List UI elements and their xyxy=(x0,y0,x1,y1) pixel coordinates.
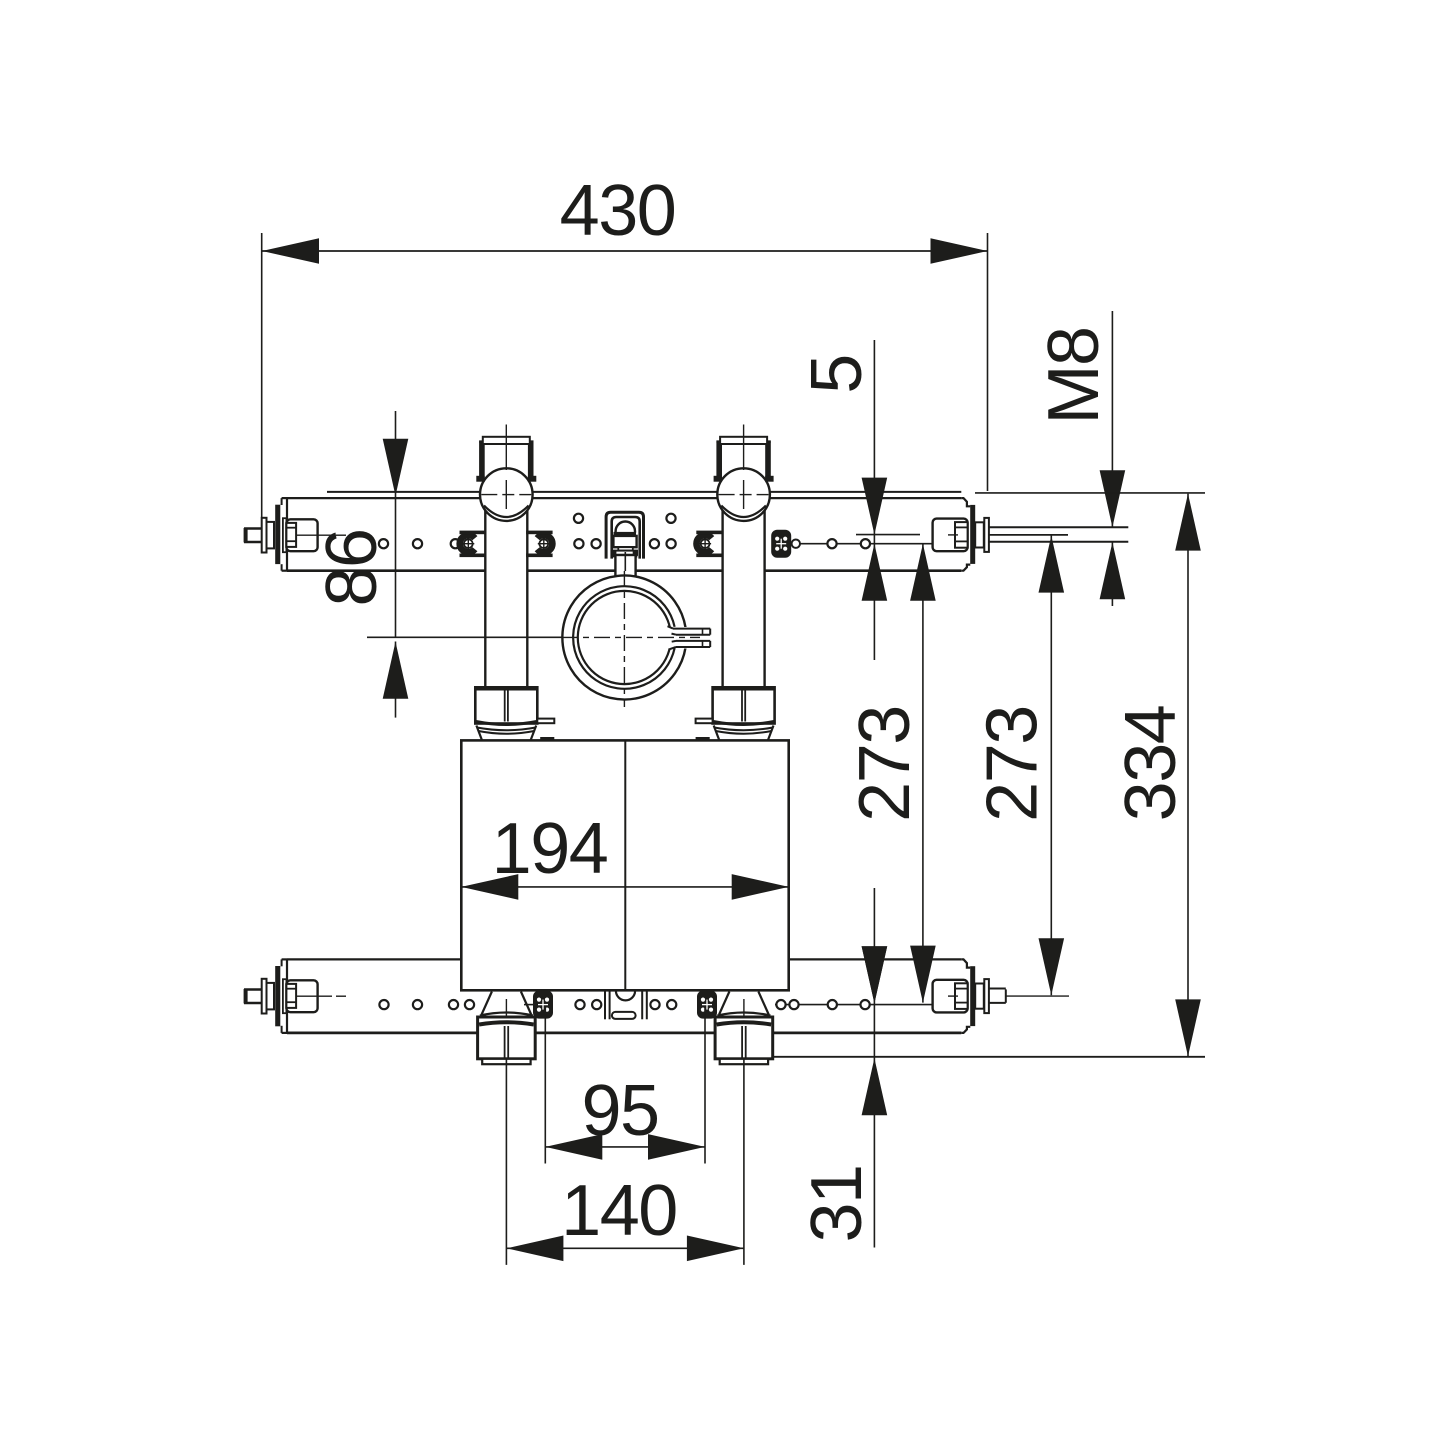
dim 273 second arrow bottom xyxy=(910,946,936,1003)
svg-text:M8: M8 xyxy=(1034,327,1114,424)
dim 194 arrow left xyxy=(461,874,518,900)
svg-text:140: 140 xyxy=(561,1171,677,1251)
svg-text:194: 194 xyxy=(492,809,608,889)
dim 334 arrow top xyxy=(1175,494,1201,551)
dim 95 line xyxy=(545,1146,705,1148)
dim 334 arrow bottom xyxy=(1175,999,1201,1056)
dim 95 arrow right xyxy=(648,1134,705,1160)
clip left of pipe 2 xyxy=(696,535,711,552)
bottom rail bottom edge xyxy=(287,1032,961,1035)
dim 95 extension lines xyxy=(544,1007,546,1164)
bottom rail hole centerline tick left xyxy=(524,1004,534,1006)
bottom rail left end notch xyxy=(282,958,287,960)
dim 273 third arrow bottom xyxy=(1039,938,1065,995)
top rail hole centerline (right) xyxy=(800,543,932,545)
bottom rail right end cap xyxy=(961,959,970,967)
keyhole hanger bracket xyxy=(606,512,643,558)
dim 31 arrow top xyxy=(862,946,888,1003)
clip right of pipe 1 xyxy=(537,535,552,552)
dim M8 line vertical xyxy=(1111,311,1113,527)
dim 430 arrow left xyxy=(262,238,319,264)
pipe 1 with elbow fitting xyxy=(485,497,527,688)
dim 194 arrow right xyxy=(732,874,789,900)
dim 140 arrow left xyxy=(506,1236,563,1262)
top rail front plate top edge xyxy=(287,497,961,499)
svg-text:273: 273 xyxy=(973,706,1053,822)
clamp centerline crosshair xyxy=(562,636,700,638)
clip left of pipe 1 xyxy=(460,535,475,552)
svg-text:5: 5 xyxy=(797,355,877,394)
dim 273 first arrow bottom xyxy=(862,946,888,1003)
bottom rail top edge xyxy=(287,958,961,960)
mounting box xyxy=(461,740,788,990)
dim 31 arrow bottom xyxy=(862,1058,888,1115)
dim 430 line xyxy=(262,250,988,252)
dim 140 extension lines xyxy=(505,1059,507,1265)
box center divider xyxy=(624,740,626,990)
bottom fitting pipe 1 xyxy=(482,992,492,1015)
svg-text:334: 334 xyxy=(1111,706,1191,822)
bottom rail back plate bottom edge xyxy=(772,1056,1205,1058)
svg-text:95: 95 xyxy=(581,1071,658,1151)
rosette clip bottom rail left xyxy=(533,991,553,1019)
union nut pipe 2 xyxy=(713,687,775,723)
rosette clip right of pipe 2 xyxy=(771,530,791,558)
dim 430 extension lines xyxy=(261,233,263,517)
dim 140 arrow right xyxy=(687,1236,744,1262)
dim 273 third arrow top xyxy=(1039,536,1065,593)
dim 430 arrow right xyxy=(931,238,988,264)
rosette clip bottom rail right xyxy=(697,991,717,1019)
bottom right threaded rod assembly xyxy=(933,980,968,1013)
dim 194 line xyxy=(461,886,788,888)
pipe clamp ring xyxy=(562,576,686,700)
dim 5 arrow bottom / 273 top xyxy=(862,544,888,601)
dim 140 line xyxy=(506,1247,744,1249)
top rail holes xyxy=(379,539,388,548)
bottom fitting pipe 2 xyxy=(719,992,729,1015)
dim 95 arrow left xyxy=(545,1134,602,1160)
dim 5 arrow top xyxy=(862,478,888,535)
top right threaded rod assembly xyxy=(933,519,968,552)
bottom rail left end edge xyxy=(286,959,288,1033)
dim 273 second arrow top xyxy=(910,544,936,601)
bottom rail hole centerline (right) xyxy=(775,1004,932,1006)
dim 5/273 line vertical xyxy=(873,340,875,660)
dim 86 line vertical xyxy=(395,411,397,637)
dim 334 line xyxy=(1187,494,1189,1057)
top rail back plate top edge xyxy=(327,491,961,493)
svg-text:273: 273 xyxy=(845,706,925,822)
top rail right end cap xyxy=(961,498,970,506)
dim 273 third line xyxy=(1050,536,1052,996)
dim M8 arrow top xyxy=(1100,470,1126,527)
top left threaded rod assembly xyxy=(244,527,262,529)
top rail bottom edge xyxy=(287,569,961,572)
svg-text:31: 31 xyxy=(797,1165,877,1242)
clamp centerline from 86 dim xyxy=(367,636,562,638)
dim 86 arrow bottom xyxy=(383,642,409,699)
top rail left end notch xyxy=(282,497,287,499)
clamp stem xyxy=(615,555,635,577)
dim 86 arrow top xyxy=(383,439,409,496)
dim 5 reference line xyxy=(856,534,920,536)
dim 334 top reference line xyxy=(975,492,1205,494)
top rail left end edge xyxy=(286,498,288,571)
svg-text:430: 430 xyxy=(560,171,676,251)
dim M8 arrow bottom xyxy=(1100,542,1126,599)
bottom rail holes xyxy=(379,1000,388,1009)
svg-text:86: 86 xyxy=(312,529,392,606)
dim 273 second line xyxy=(922,544,924,1003)
bottom rail keyhole slot xyxy=(616,991,635,1001)
pipe 2 with elbow fitting xyxy=(723,497,765,688)
bottom left threaded rod assembly xyxy=(244,988,262,990)
union nut pipe 1 xyxy=(475,687,537,723)
